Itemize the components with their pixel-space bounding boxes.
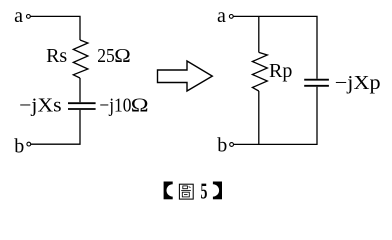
- svg-text:a: a: [217, 5, 226, 27]
- svg-text:−j10: −j10: [99, 95, 131, 117]
- svg-text:25: 25: [97, 45, 115, 67]
- svg-text:b: b: [217, 134, 227, 156]
- svg-text:Ω: Ω: [114, 44, 130, 67]
- svg-text:−jXp: −jXp: [335, 72, 381, 94]
- svg-text:Rs: Rs: [46, 45, 67, 67]
- svg-text:a: a: [14, 5, 23, 27]
- svg-text:−jXs: −jXs: [19, 95, 62, 117]
- svg-text:Rp: Rp: [269, 60, 292, 82]
- svg-text:b: b: [14, 136, 24, 158]
- svg-text:Ω: Ω: [131, 93, 149, 116]
